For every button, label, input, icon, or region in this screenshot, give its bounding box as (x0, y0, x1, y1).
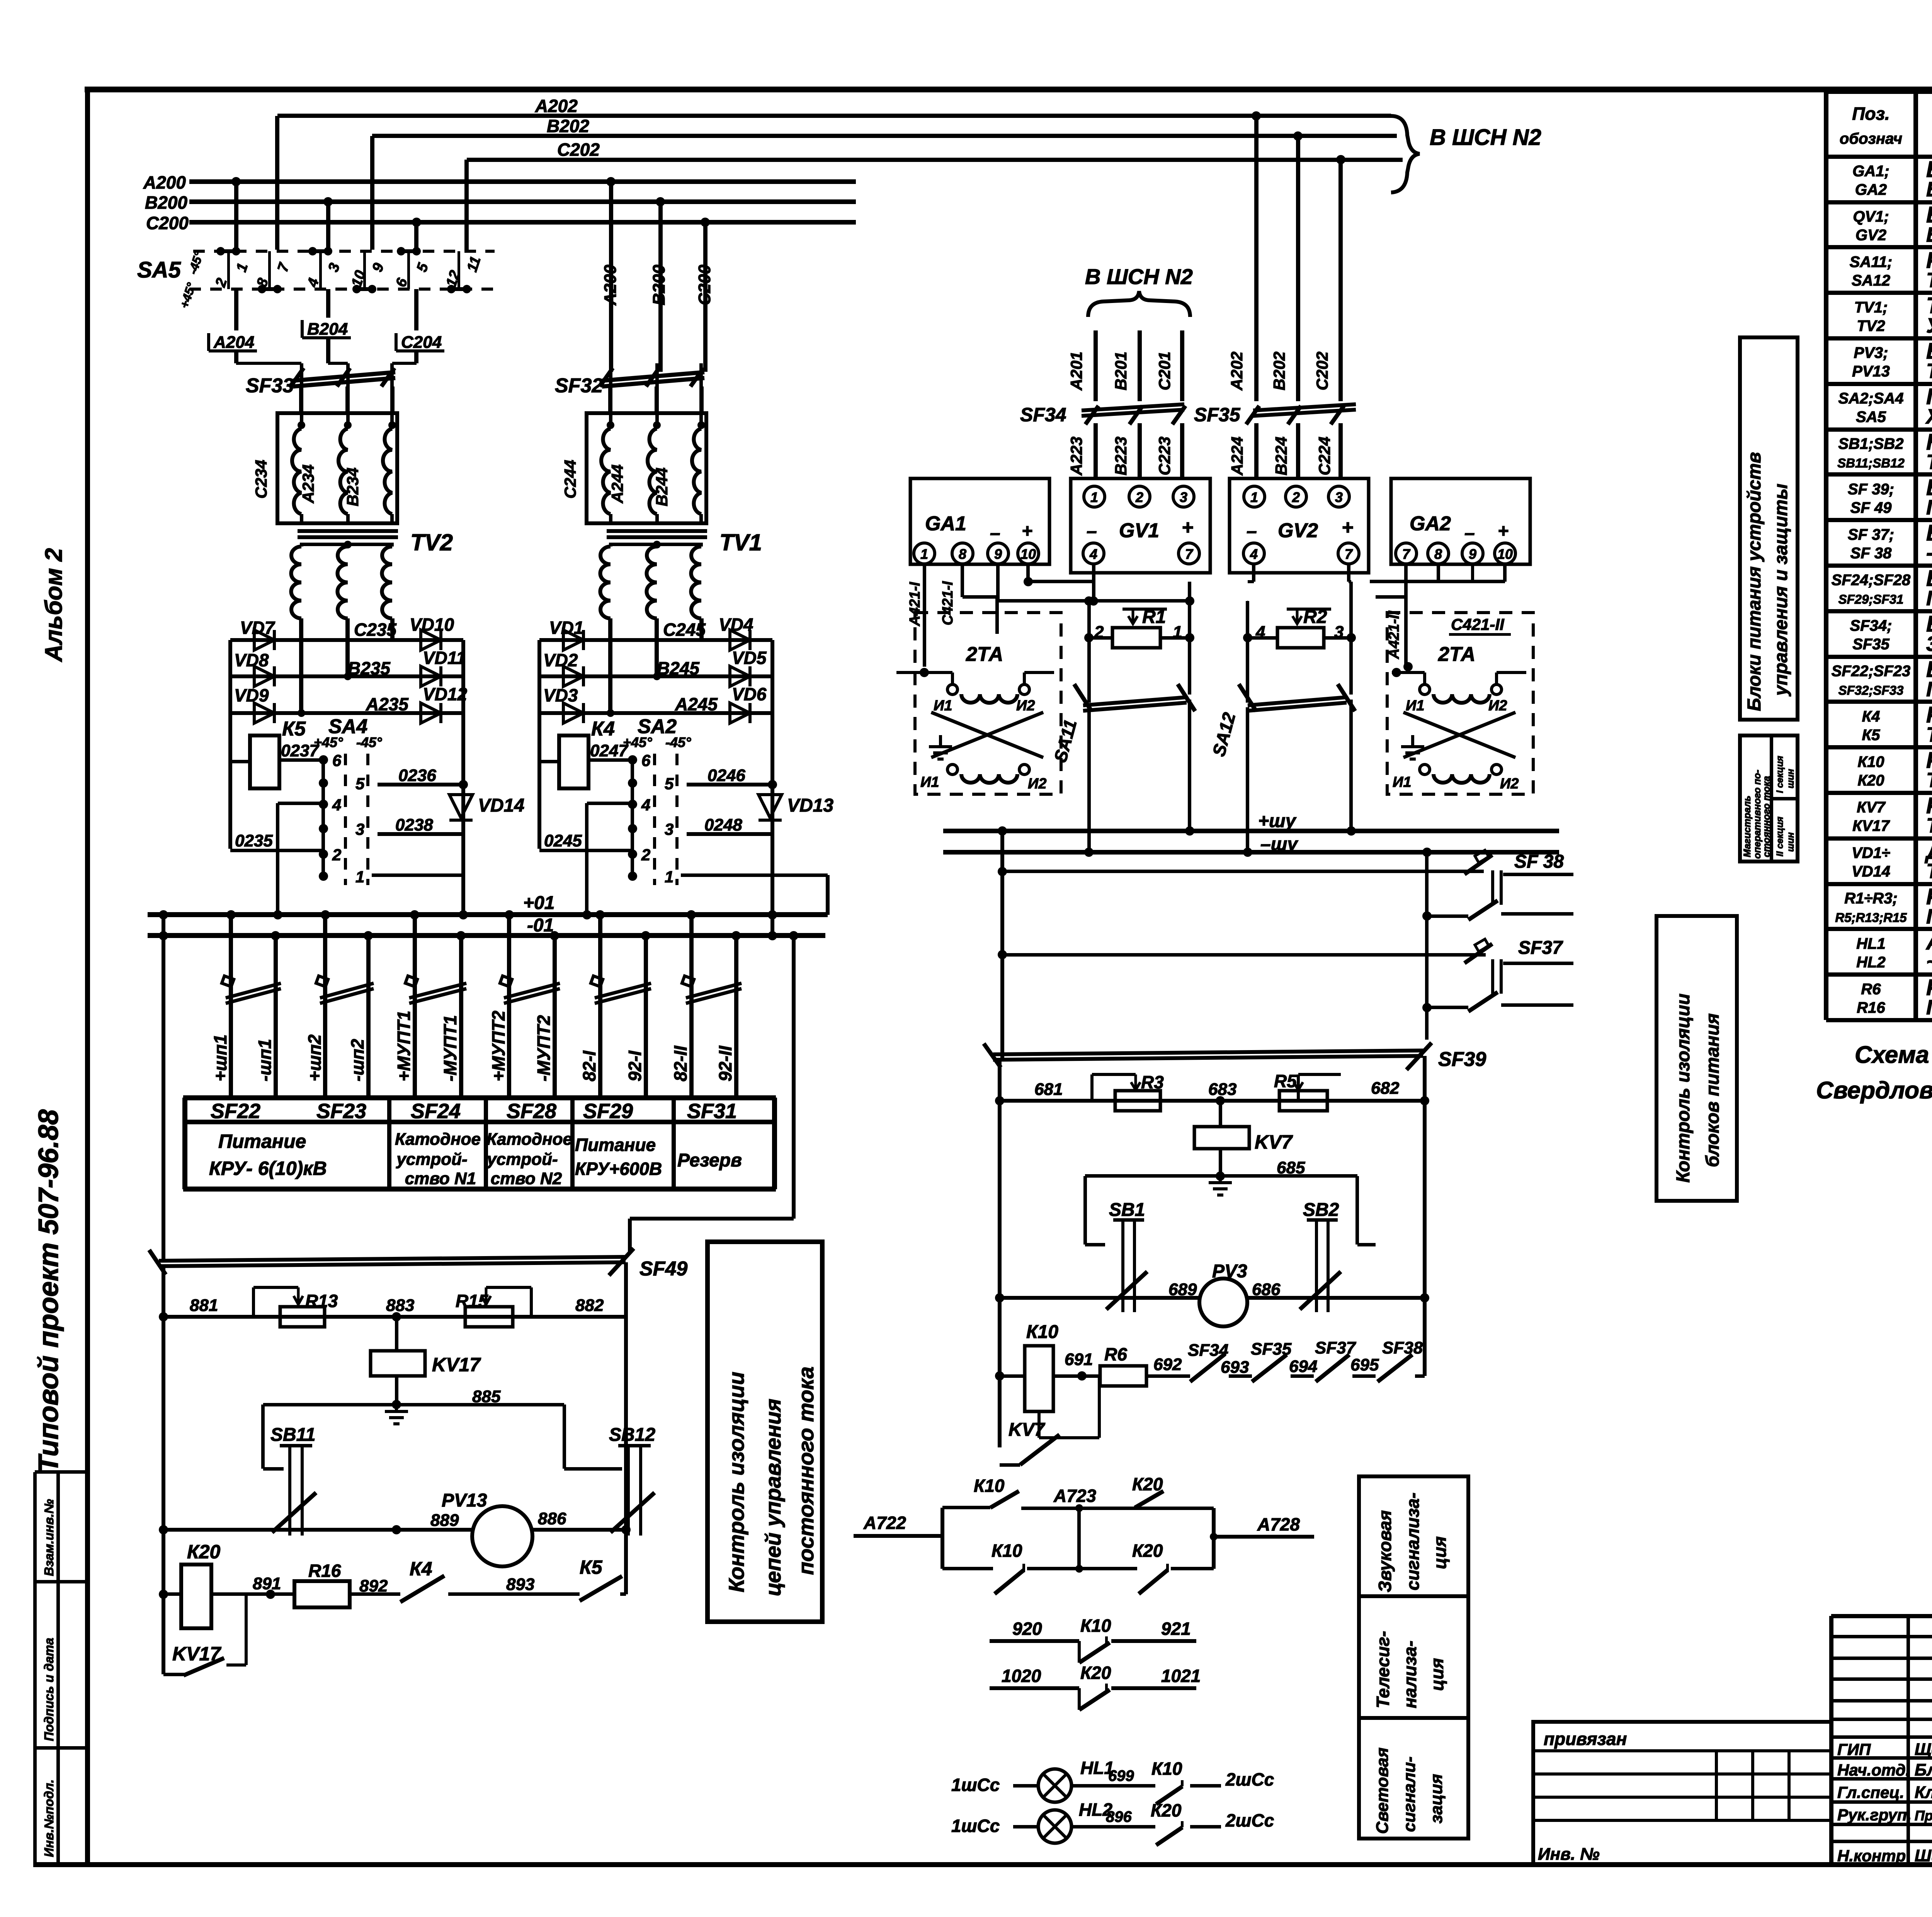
svg-text:1: 1 (1090, 489, 1098, 505)
svg-text:1: 1 (920, 546, 928, 562)
svg-text:К10: К10 (1080, 1616, 1111, 1636)
svg-text:С201: С201 (1155, 352, 1173, 390)
svg-text:устрой-: устрой- (486, 1150, 558, 1169)
svg-text:5: 5 (665, 775, 674, 793)
svg-text:2: 2 (332, 846, 341, 864)
svg-text:Клячин: Клячин (1915, 1783, 1932, 1802)
svg-text:82-II: 82-II (670, 1045, 690, 1081)
svg-text:С244: С244 (561, 460, 579, 499)
svg-text:92-II: 92-II (715, 1045, 735, 1081)
svg-text:VD14: VD14 (478, 795, 524, 816)
svg-text:7: 7 (1345, 546, 1353, 562)
svg-text:С235: С235 (354, 620, 397, 640)
svg-text:ТV2: ТV2 (1857, 318, 1885, 335)
svg-text:I секция: I секция (1775, 756, 1785, 793)
svg-text:постоянного тока: постоянного тока (794, 1367, 818, 1575)
svg-text:ГИП: ГИП (1837, 1740, 1871, 1759)
svg-text:2ТА: 2ТА (1438, 643, 1475, 666)
svg-text:1: 1 (665, 868, 673, 886)
svg-text:ство N1: ство N1 (405, 1169, 476, 1188)
svg-text:К5: К5 (580, 1556, 603, 1578)
svg-text:ТУ 16-523.483-78Е: ТУ 16-523.483-78Е (1926, 723, 1932, 746)
svg-text:А204: А204 (213, 333, 254, 352)
svg-text:Ж 70 У3; ТУ 16-524.074-75: Ж 70 У3; ТУ 16-524.074-75 (1925, 405, 1932, 428)
svg-text:И1: И1 (934, 698, 952, 714)
svg-text:В235: В235 (348, 658, 391, 678)
svg-text:УХЛ3 220/170В; ТУ 16-517.013-7: УХЛ3 220/170В; ТУ 16-517.013-79Е (1926, 314, 1932, 337)
svg-text:VD2: VD2 (543, 650, 578, 670)
svg-text:ТУ 16-729. 104-81: ТУ 16-729. 104-81 (1926, 860, 1932, 883)
svg-text:В223: В223 (1112, 437, 1130, 475)
svg-text:VD13: VD13 (787, 795, 833, 816)
svg-text:Блоки питания устройств: Блоки питания устройств (1744, 452, 1765, 711)
svg-text:ция: ция (1430, 1536, 1450, 1569)
svg-text:Питание: Питание (218, 1130, 306, 1152)
svg-text:TV1: TV1 (719, 529, 762, 555)
svg-text:С421-II: С421-II (1451, 615, 1505, 633)
svg-text:ТУ 16-523. 187-80Е: ТУ 16-523. 187-80Е (1926, 814, 1932, 837)
svg-text:896: 896 (1106, 1808, 1132, 1825)
svg-text:А728: А728 (1257, 1514, 1300, 1534)
svg-text:И1: И1 (920, 774, 939, 790)
svg-text:SВ12: SВ12 (609, 1425, 655, 1445)
svg-text:Контроль изоляции: Контроль изоляции (1673, 994, 1694, 1183)
svg-text:691: 691 (1065, 1350, 1093, 1369)
svg-text:Привезенцева: Привезенцева (1915, 1808, 1932, 1823)
svg-text:шин: шин (1786, 769, 1796, 788)
svg-text:SF 38: SF 38 (1514, 851, 1564, 872)
svg-text:SВ11;SВ12: SВ11;SВ12 (1837, 456, 1905, 470)
svg-text:SF33: SF33 (246, 375, 294, 397)
svg-text:4: 4 (332, 796, 341, 814)
svg-text:1020: 1020 (1002, 1666, 1041, 1686)
svg-text:0245: 0245 (544, 831, 582, 850)
svg-text:+: + (1022, 521, 1032, 541)
svg-text:694: 694 (1289, 1357, 1317, 1376)
svg-text:SF24: SF24 (411, 1100, 461, 1123)
svg-text:Телесиг-: Телесиг- (1373, 1631, 1393, 1708)
svg-text:699: 699 (1108, 1767, 1134, 1784)
svg-text:R3: R3 (1141, 1072, 1164, 1092)
svg-text:И2: И2 (1016, 698, 1035, 714)
svg-text:К20: К20 (1132, 1474, 1163, 1494)
svg-text:С200: С200 (695, 264, 714, 305)
svg-text:~36В ; ТУ16-535.582-76: ~36В ; ТУ16-535.582-76 (1926, 950, 1932, 974)
svg-text:VD5: VD5 (732, 648, 767, 668)
svg-text:С234: С234 (252, 460, 270, 499)
svg-text:0246: 0246 (707, 766, 745, 785)
svg-text:К10: К10 (992, 1541, 1022, 1561)
svg-text:Н.контр: Н.контр (1837, 1847, 1906, 1865)
svg-text:В200: В200 (650, 264, 668, 305)
svg-text:А202: А202 (535, 96, 578, 116)
svg-text:+: + (1182, 516, 1193, 539)
svg-text:+шу: +шу (1258, 811, 1297, 831)
svg-text:+МУПТ1: +МУПТ1 (394, 1011, 414, 1081)
svg-text:А723: А723 (1053, 1486, 1096, 1506)
svg-text:А234: А234 (299, 465, 317, 504)
svg-text:VD7: VD7 (240, 618, 276, 638)
svg-text:SF37: SF37 (1518, 938, 1563, 958)
svg-text:SF29;SF31: SF29;SF31 (1838, 592, 1904, 606)
svg-text:SF22: SF22 (211, 1100, 260, 1123)
svg-text:TV2: TV2 (410, 529, 453, 555)
svg-text:цепей управления: цепей управления (761, 1399, 785, 1596)
svg-text:3МТ Iнр=4А; 3,5Iнр; ТУ16-522.0: 3МТ Iнр=4А; 3,5Iнр; ТУ16-522.066-75 (1926, 632, 1932, 655)
svg-text:–: – (1087, 521, 1097, 541)
svg-text:–: – (1247, 521, 1257, 541)
svg-text:Рук.груп.: Рук.груп. (1837, 1806, 1912, 1824)
svg-text:VD1: VD1 (549, 618, 583, 638)
svg-text:стоянного тока: стоянного тока (1761, 776, 1772, 857)
svg-text:VD9: VD9 (234, 685, 269, 705)
svg-text:VD10: VD10 (410, 615, 454, 635)
svg-text:7: 7 (1402, 546, 1411, 562)
svg-text:К5: К5 (282, 718, 306, 740)
svg-text:3: 3 (665, 820, 673, 838)
svg-text:ТУ16-523.483- 78Е: ТУ16-523.483- 78Е (1926, 769, 1932, 792)
svg-text:В245: В245 (657, 658, 700, 678)
svg-text:Звуковая: Звуковая (1375, 1510, 1395, 1592)
svg-text:С245: С245 (663, 620, 706, 640)
svg-text:ТУ 16-525.018-79: ТУ 16-525.018-79 (1926, 269, 1932, 292)
svg-text:VD11: VD11 (423, 648, 466, 668)
svg-text:1шСс: 1шСс (951, 1775, 1000, 1795)
svg-text:К10: К10 (974, 1476, 1005, 1496)
svg-text:ТУ 25-04-3577-78: ТУ 25-04-3577-78 (1926, 359, 1932, 383)
svg-text:В224: В224 (1272, 437, 1290, 475)
svg-text:-01: -01 (527, 915, 554, 936)
svg-text:693: 693 (1221, 1358, 1249, 1377)
svg-text:Iнр=16А; 11Iнр ; ТУ16-522.066-: Iнр=16А; 11Iнр ; ТУ16-522.066-75 (1926, 587, 1932, 610)
svg-text:А200: А200 (143, 172, 186, 192)
svg-text:+45°: +45° (314, 734, 343, 750)
svg-text:4: 4 (641, 796, 650, 814)
svg-text:РV3;: РV3; (1854, 344, 1888, 361)
svg-text:SВ11: SВ11 (270, 1425, 316, 1445)
svg-text:Шишло: Шишло (1915, 1846, 1932, 1865)
svg-text:Щетинский: Щетинский (1915, 1740, 1932, 1759)
svg-text:ция: ция (1427, 1658, 1447, 1691)
svg-text:7: 7 (1185, 546, 1194, 562)
svg-text:SА5: SА5 (1856, 409, 1886, 426)
svg-text:+45°: +45° (623, 734, 652, 750)
svg-text:SF 37;: SF 37; (1848, 526, 1894, 543)
svg-text:-шп1: -шп1 (255, 1039, 275, 1081)
svg-text:82-I: 82-I (579, 1050, 599, 1081)
svg-text:А421-I: А421-I (907, 582, 923, 627)
svg-text:А224: А224 (1228, 437, 1246, 476)
svg-text:А223: А223 (1067, 437, 1085, 476)
svg-text:SF29: SF29 (583, 1100, 633, 1123)
svg-text:10: 10 (1497, 546, 1513, 562)
svg-text:SА11;: SА11; (1850, 254, 1892, 271)
svg-text:КРУ- 6(10)кВ: КРУ- 6(10)кВ (209, 1158, 327, 1179)
svg-text:Катодное: Катодное (395, 1130, 481, 1149)
svg-text:-45°: -45° (356, 734, 382, 750)
svg-text:ство N2: ство N2 (491, 1169, 562, 1188)
svg-text:SF23: SF23 (316, 1100, 366, 1123)
svg-text:SВ1: SВ1 (1109, 1200, 1145, 1220)
svg-text:-МУПТ2: -МУПТ2 (534, 1015, 554, 1081)
svg-text:Свердловского электромеханичес: Свердловского электромеханического завод… (1816, 1077, 1932, 1104)
svg-text:А200: А200 (601, 264, 620, 306)
svg-text:1: 1 (355, 868, 364, 886)
svg-text:А245: А245 (675, 694, 718, 714)
svg-text:SA5: SA5 (137, 257, 181, 283)
svg-text:883: 883 (386, 1296, 414, 1315)
svg-text:РV13: РV13 (1852, 363, 1890, 380)
svg-text:GV1: GV1 (1119, 519, 1159, 542)
svg-text:Инв. №: Инв. № (1538, 1845, 1600, 1864)
svg-text:SF32;SF33: SF32;SF33 (1838, 683, 1904, 698)
svg-text:92-I: 92-I (625, 1050, 645, 1081)
svg-text:Световая: Световая (1373, 1747, 1392, 1834)
svg-text:893: 893 (506, 1575, 534, 1594)
svg-text:9: 9 (994, 546, 1002, 562)
svg-text:К4: К4 (1862, 708, 1880, 725)
svg-text:689: 689 (1168, 1280, 1197, 1299)
svg-text:Магистраль: Магистраль (1742, 795, 1753, 857)
svg-text:Резерв: Резерв (677, 1150, 742, 1171)
svg-text:KV17: KV17 (432, 1354, 481, 1376)
svg-text:-шп2: -шп2 (347, 1039, 367, 1081)
svg-text:А235: А235 (366, 694, 409, 714)
svg-text:В ШСН N2: В ШСН N2 (1085, 264, 1193, 289)
svg-text:+шп1: +шп1 (210, 1035, 230, 1081)
svg-text:С200: С200 (146, 213, 189, 233)
svg-text:VD3: VD3 (543, 685, 578, 705)
svg-text:+МУПТ2: +МУПТ2 (488, 1010, 509, 1081)
svg-text:Схема соответствует чертежу 3М: Схема соответствует чертежу 3М3, 612.086 (1855, 1042, 1932, 1068)
svg-text:GА2: GА2 (1855, 181, 1887, 198)
svg-text:VD6: VD6 (732, 684, 767, 704)
svg-text:SF37: SF37 (1315, 1338, 1357, 1357)
svg-text:–: – (990, 523, 1000, 543)
svg-text:R16: R16 (1857, 999, 1885, 1016)
svg-text:И1: И1 (1393, 774, 1411, 790)
svg-text:КV7: КV7 (1857, 799, 1886, 816)
svg-text:И1: И1 (1406, 698, 1424, 714)
svg-text:VD12: VD12 (423, 684, 467, 704)
svg-text:5: 5 (355, 775, 365, 793)
svg-text:R6: R6 (1104, 1344, 1127, 1364)
svg-text:С202: С202 (1313, 352, 1331, 390)
svg-text:КV17: КV17 (1852, 817, 1890, 834)
svg-text:4: 4 (1250, 546, 1258, 562)
svg-text:-3МТ Iнр=4А; 3,5Iнр; Т16-522.0: -3МТ Iнр=4А; 3,5Iнр; Т16-522.066-75 (1926, 541, 1932, 565)
svg-text:889: 889 (430, 1511, 459, 1530)
svg-text:SВ2: SВ2 (1303, 1200, 1339, 1220)
svg-text:VD8: VD8 (234, 650, 269, 670)
svg-text:SF 39;: SF 39; (1848, 481, 1894, 498)
svg-text:2ТА: 2ТА (966, 643, 1003, 666)
svg-text:R1÷R3;: R1÷R3; (1844, 890, 1898, 907)
svg-text:886: 886 (538, 1509, 566, 1528)
svg-text:SF22;SF23: SF22;SF23 (1832, 663, 1911, 680)
svg-text:ГОСТ 8513-75: ГОСТ 8513-75 (1926, 996, 1932, 1019)
svg-text:SF34: SF34 (1188, 1341, 1228, 1360)
svg-text:1: 1 (1250, 489, 1258, 505)
svg-text:С204: С204 (401, 333, 442, 352)
svg-text:0238: 0238 (395, 815, 433, 834)
svg-text:К4: К4 (410, 1558, 432, 1580)
svg-text:2: 2 (1135, 489, 1143, 505)
svg-text:Поз.: Поз. (1852, 104, 1889, 124)
svg-text:-45°: -45° (665, 734, 691, 750)
svg-text:SF49: SF49 (639, 1258, 687, 1280)
svg-text:SВ1;SВ2: SВ1;SВ2 (1838, 436, 1904, 453)
svg-text:1021: 1021 (1161, 1666, 1201, 1686)
svg-text:А421-II: А421-II (1386, 610, 1402, 659)
svg-text:Взам.инв.№: Взам.инв.№ (42, 1499, 56, 1576)
svg-text:SF32: SF32 (555, 375, 603, 397)
svg-text:686: 686 (1252, 1280, 1281, 1299)
svg-text:GV2: GV2 (1855, 227, 1886, 244)
svg-text:892: 892 (359, 1577, 388, 1595)
svg-text:В244: В244 (653, 468, 671, 506)
svg-text:устрой-: устрой- (396, 1150, 467, 1169)
svg-text:QV1;: QV1; (1853, 208, 1889, 225)
svg-text:VD14: VD14 (1852, 863, 1890, 880)
svg-text:КРУ+600В: КРУ+600В (575, 1159, 662, 1179)
svg-text:В ШСН N2: В ШСН N2 (1430, 125, 1541, 150)
svg-text:SF31: SF31 (687, 1100, 737, 1123)
svg-text:ГОСТ 6513-75: ГОСТ 6513-75 (1926, 905, 1932, 928)
svg-text:А722: А722 (863, 1513, 906, 1533)
svg-text:SF34: SF34 (1020, 404, 1066, 426)
svg-text:С421-I: С421-I (940, 581, 956, 625)
svg-text:С202: С202 (557, 140, 600, 160)
svg-text:2шСс: 2шСс (1225, 1769, 1274, 1789)
svg-text:+01: +01 (523, 893, 554, 913)
svg-text:-МУПТ1: -МУПТ1 (440, 1015, 460, 1081)
svg-text:+: + (1342, 516, 1353, 539)
svg-text:НL1: НL1 (1856, 935, 1886, 952)
svg-text:2: 2 (1292, 489, 1300, 505)
svg-text:4: 4 (1255, 623, 1265, 642)
svg-text:1шСс: 1шСс (951, 1816, 1000, 1836)
svg-text:SF35: SF35 (1194, 404, 1241, 426)
svg-text:обознач: обознач (1840, 130, 1902, 147)
svg-text:Гл.спец.: Гл.спец. (1837, 1783, 1904, 1801)
svg-text:А244: А244 (608, 465, 626, 504)
svg-text:3: 3 (1180, 489, 1187, 505)
svg-text:А201: А201 (1067, 352, 1085, 391)
svg-text:9: 9 (1469, 546, 1476, 562)
svg-text:SF39: SF39 (1438, 1048, 1486, 1071)
svg-text:PV13: PV13 (442, 1490, 487, 1511)
svg-text:+шп2: +шп2 (304, 1034, 325, 1081)
svg-text:К10: К10 (1026, 1322, 1058, 1342)
svg-text:ТУ 16-526. 407 - 79 Е: ТУ 16-526. 407 - 79 Е (1926, 451, 1932, 474)
svg-text:GА1;: GА1; (1852, 163, 1889, 180)
svg-text:сигнали-: сигнали- (1400, 1757, 1419, 1832)
svg-text:692: 692 (1153, 1355, 1182, 1374)
svg-text:R6: R6 (1861, 981, 1881, 998)
svg-text:2шСс: 2шСс (1225, 1810, 1274, 1830)
svg-text:KV7: KV7 (1009, 1420, 1046, 1440)
svg-text:БПТ- 1002 УХЛ 4 220В; ТУ 16: БПТ- 1002 УХЛ 4 220В; ТУ 16-529.941-77Е (1926, 178, 1932, 201)
svg-text:ТV1;: ТV1; (1854, 299, 1888, 316)
svg-text:891: 891 (253, 1574, 281, 1593)
svg-text:683: 683 (1208, 1080, 1236, 1099)
svg-text:882: 882 (575, 1296, 604, 1315)
svg-text:R5: R5 (1274, 1071, 1297, 1091)
svg-text:В234: В234 (344, 468, 362, 506)
svg-text:0235: 0235 (235, 831, 273, 850)
svg-text:В202: В202 (547, 116, 589, 136)
svg-text:GА2: GА2 (1410, 512, 1451, 535)
svg-text:К20: К20 (1132, 1541, 1163, 1561)
svg-text:привязан: привязан (1544, 1729, 1627, 1749)
svg-text:881: 881 (190, 1296, 218, 1315)
svg-text:зация: зация (1427, 1774, 1446, 1823)
svg-text:SF38: SF38 (1382, 1338, 1423, 1357)
svg-text:К5: К5 (1862, 727, 1881, 744)
svg-text:SF 49: SF 49 (1850, 499, 1892, 516)
svg-text:R16: R16 (308, 1561, 341, 1581)
svg-text:695: 695 (1350, 1355, 1379, 1374)
svg-text:Iнр=25А; 11Iнр; ТУ16-522.066-7: Iнр=25А; 11Iнр; ТУ16-522.066-75 (1926, 678, 1932, 701)
svg-text:К10: К10 (1857, 754, 1884, 771)
svg-text:682: 682 (1371, 1079, 1400, 1098)
svg-text:3: 3 (355, 820, 364, 838)
svg-text:8: 8 (1434, 546, 1442, 562)
svg-text:В201: В201 (1112, 352, 1130, 390)
svg-text:2: 2 (1094, 623, 1104, 642)
svg-text:БПН-1002 УХЛ4 220/220В; ТУ16: БПН-1002 УХЛ4 220/220В; ТУ16-529.941-77Е (1926, 223, 1932, 247)
svg-text:0248: 0248 (704, 815, 742, 834)
svg-text:–: – (1464, 523, 1475, 543)
svg-text:SF35: SF35 (1251, 1340, 1292, 1359)
svg-text:В204: В204 (307, 320, 348, 339)
svg-text:шин: шин (1786, 832, 1796, 852)
svg-text:3: 3 (1335, 489, 1343, 505)
svg-text:К20: К20 (1857, 772, 1884, 789)
svg-text:К20: К20 (1080, 1663, 1111, 1683)
svg-text:SF28: SF28 (507, 1100, 556, 1123)
svg-text:А202: А202 (1228, 352, 1246, 391)
svg-text:SF 38: SF 38 (1850, 545, 1892, 562)
svg-text:SF35: SF35 (1852, 636, 1889, 653)
svg-text:GV2: GV2 (1278, 519, 1318, 542)
svg-text:1: 1 (1173, 623, 1182, 642)
svg-text:управления и защиты: управления и защиты (1771, 484, 1791, 696)
svg-text:Подпись и дата: Подпись и дата (42, 1638, 56, 1742)
svg-text:R1: R1 (1142, 607, 1166, 627)
svg-text:R5;R13;R15: R5;R13;R15 (1835, 911, 1907, 925)
svg-text:НL2: НL2 (1856, 954, 1886, 971)
svg-text:6: 6 (641, 751, 651, 770)
svg-text:Iнр=1,6А; 3,5Iнр; ТУ16-522.066: Iнр=1,6А; 3,5Iнр; ТУ16-522.066-75 (1926, 496, 1932, 519)
svg-text:3: 3 (1334, 623, 1344, 642)
svg-text:6: 6 (332, 751, 342, 770)
svg-text:Типовой проект 507-96.88: Типовой проект 507-96.88 (33, 1109, 64, 1473)
svg-text:Катодное: Катодное (486, 1130, 572, 1149)
svg-text:сигнализа-: сигнализа- (1403, 1493, 1423, 1590)
svg-text:К20: К20 (1151, 1800, 1182, 1820)
svg-text:2: 2 (641, 846, 650, 864)
svg-text:И2: И2 (1028, 776, 1046, 792)
svg-text:К10: К10 (1151, 1759, 1182, 1779)
svg-text:блоков питания: блоков питания (1702, 1013, 1723, 1167)
svg-text:R15: R15 (456, 1291, 489, 1311)
svg-text:Блохин: Блохин (1915, 1760, 1932, 1779)
svg-text:В202: В202 (1270, 352, 1288, 390)
svg-text:4: 4 (1089, 546, 1097, 562)
svg-text:С223: С223 (1155, 437, 1173, 475)
